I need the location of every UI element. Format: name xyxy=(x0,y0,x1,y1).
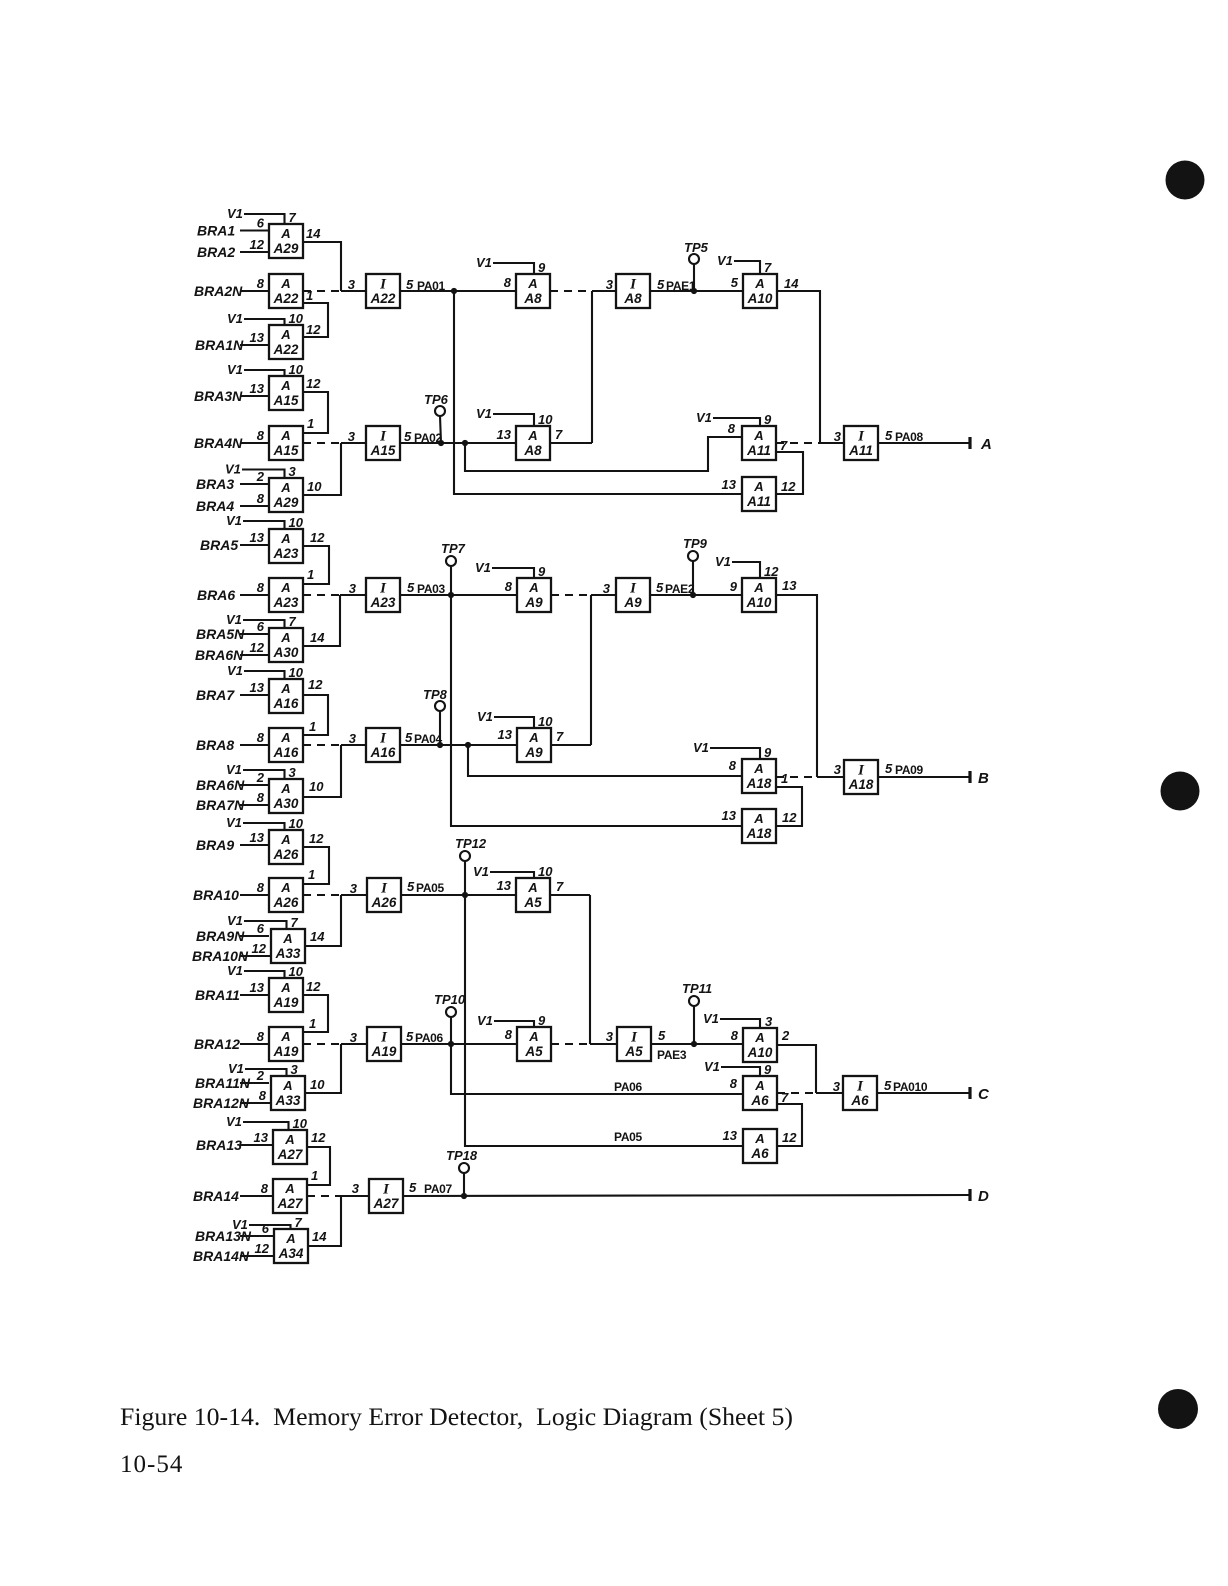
wire A22 expander pin1 xyxy=(303,288,328,337)
svg-text:A: A xyxy=(280,630,290,645)
svg-text:3: 3 xyxy=(291,1062,299,1077)
svg-text:A29: A29 xyxy=(273,495,299,510)
page number xyxy=(120,1451,183,1478)
svg-text:A30: A30 xyxy=(273,645,299,660)
test point TP5 xyxy=(684,240,709,291)
and-gate A29 (BRA3/BRA4) xyxy=(196,462,303,515)
and-gate A27 (BRA14) xyxy=(193,1179,307,1213)
and-gate A10 (pin 9) xyxy=(715,554,779,612)
and-gate A34 (BRA13N/BRA14N) xyxy=(193,1215,308,1264)
svg-text:3: 3 xyxy=(352,1181,360,1196)
svg-text:A: A xyxy=(527,276,537,291)
wire A30 pin10 to PA04 wire xyxy=(303,745,341,797)
svg-text:D: D xyxy=(978,1188,989,1205)
and-gate A18 (pin 8) xyxy=(693,740,776,793)
test point TP12 xyxy=(455,836,487,895)
and-gate A10 (pin 5) xyxy=(717,253,777,308)
svg-text:A10: A10 xyxy=(747,1045,773,1060)
svg-text:V1: V1 xyxy=(473,864,489,879)
svg-text:13: 13 xyxy=(250,330,265,345)
test point TP11 xyxy=(682,981,712,1044)
svg-text:5: 5 xyxy=(409,1180,417,1195)
svg-text:A: A xyxy=(280,880,290,895)
wire A15 pin12 to expander pin1 xyxy=(303,376,328,433)
svg-text:8: 8 xyxy=(257,580,265,595)
svg-text:7: 7 xyxy=(556,729,564,744)
and-gate A30 (BRA5N/BRA6N) xyxy=(195,612,303,663)
svg-text:V1: V1 xyxy=(226,762,242,777)
and-gate A18 (pin 13) xyxy=(722,808,776,843)
svg-text:10: 10 xyxy=(307,479,322,494)
svg-text:7: 7 xyxy=(781,1090,789,1105)
wire PA02 branch to A11 pin8 xyxy=(465,437,742,471)
svg-text:V1: V1 xyxy=(227,963,243,978)
svg-text:V1: V1 xyxy=(227,362,243,377)
wire A8 pin7 to bus xyxy=(550,427,592,443)
svg-text:A8: A8 xyxy=(523,291,542,306)
svg-text:PA06: PA06 xyxy=(415,1031,444,1045)
svg-text:2: 2 xyxy=(256,770,265,785)
svg-text:V1: V1 xyxy=(228,1061,244,1076)
svg-text:A19: A19 xyxy=(371,1044,397,1059)
svg-text:13: 13 xyxy=(250,980,265,995)
and-gate A26 (BRA9) xyxy=(196,815,304,864)
svg-text:3: 3 xyxy=(289,464,297,479)
svg-text:A16: A16 xyxy=(273,696,299,711)
svg-text:V1: V1 xyxy=(477,1013,493,1028)
svg-text:7: 7 xyxy=(291,915,299,930)
svg-text:A: A xyxy=(284,1132,294,1147)
and-gate A23 (BRA5) xyxy=(200,513,304,563)
svg-text:A11: A11 xyxy=(746,443,771,458)
svg-text:3: 3 xyxy=(834,762,842,777)
svg-text:3: 3 xyxy=(289,765,297,780)
svg-text:A: A xyxy=(980,436,992,453)
svg-text:A18: A18 xyxy=(746,826,772,841)
svg-text:A18: A18 xyxy=(746,776,772,791)
svg-text:9: 9 xyxy=(764,745,772,760)
and-gate A8 (pin 13) xyxy=(476,406,553,460)
svg-text:5: 5 xyxy=(658,1028,666,1043)
svg-text:V1: V1 xyxy=(227,913,243,928)
svg-text:1: 1 xyxy=(781,771,788,786)
svg-text:2: 2 xyxy=(781,1028,790,1043)
svg-text:V1: V1 xyxy=(717,253,733,268)
svg-text:A: A xyxy=(280,681,290,696)
test point TP7 xyxy=(441,541,466,595)
svg-text:A15: A15 xyxy=(273,393,299,408)
svg-text:3: 3 xyxy=(350,881,358,896)
wire A10 pin14 down to output wire xyxy=(777,276,820,443)
wire A5 pin7 to bus xyxy=(550,879,590,895)
svg-text:5: 5 xyxy=(405,730,413,745)
svg-text:8: 8 xyxy=(730,1076,738,1091)
and-gate A11 (pin 13) xyxy=(722,477,776,511)
svg-text:A: A xyxy=(284,1181,294,1196)
svg-text:BRA3N: BRA3N xyxy=(194,388,243,404)
dashed wire A26 out to inverter A26 xyxy=(303,881,367,896)
svg-text:12: 12 xyxy=(764,564,779,579)
and-gate A16 (BRA8) xyxy=(196,728,303,762)
svg-text:2: 2 xyxy=(256,469,265,484)
test point TP9 xyxy=(683,536,708,595)
svg-text:13: 13 xyxy=(497,427,512,442)
svg-text:8: 8 xyxy=(257,730,265,745)
svg-text:V1: V1 xyxy=(703,1011,719,1026)
svg-text:V1: V1 xyxy=(227,206,243,221)
svg-text:A29: A29 xyxy=(273,241,299,256)
svg-text:12: 12 xyxy=(311,1130,326,1145)
svg-text:BRA1N: BRA1N xyxy=(195,337,244,353)
svg-text:13: 13 xyxy=(254,1130,269,1145)
svg-text:BRA14: BRA14 xyxy=(193,1188,239,1204)
svg-text:7: 7 xyxy=(764,260,772,275)
svg-text:13: 13 xyxy=(250,381,265,396)
svg-text:12: 12 xyxy=(306,322,321,337)
svg-text:BRA7: BRA7 xyxy=(196,687,235,703)
svg-text:TP18: TP18 xyxy=(446,1148,478,1163)
svg-text:A9: A9 xyxy=(623,595,642,610)
svg-text:A: A xyxy=(280,531,290,546)
dashed wire A15 out to inverter A15 xyxy=(303,429,366,444)
svg-text:BRA9N: BRA9N xyxy=(196,928,245,944)
svg-text:12: 12 xyxy=(309,831,324,846)
and-gate A6 (pin 13) xyxy=(723,1128,777,1163)
svg-text:BRA1: BRA1 xyxy=(197,223,235,239)
svg-text:10: 10 xyxy=(310,1077,325,1092)
wire A10 pin2 down to output wire xyxy=(777,1028,816,1093)
and-gate A15 (BRA3N) xyxy=(194,362,304,410)
svg-text:7: 7 xyxy=(295,1215,303,1230)
svg-text:3: 3 xyxy=(348,277,356,292)
svg-text:3: 3 xyxy=(833,1079,841,1094)
svg-text:5: 5 xyxy=(884,1078,892,1093)
svg-text:A: A xyxy=(753,761,763,776)
svg-text:12: 12 xyxy=(252,941,267,956)
svg-text:10: 10 xyxy=(538,412,553,427)
svg-text:A: A xyxy=(280,730,290,745)
svg-text:3: 3 xyxy=(349,581,357,596)
svg-text:5: 5 xyxy=(657,277,665,292)
svg-text:A: A xyxy=(285,1231,295,1246)
inverter A27 xyxy=(369,1179,403,1213)
dashed wire A23 out to inverter A23 xyxy=(303,581,366,596)
svg-text:9: 9 xyxy=(538,564,546,579)
svg-text:A: A xyxy=(528,1029,538,1044)
svg-text:A19: A19 xyxy=(273,995,299,1010)
svg-text:A22: A22 xyxy=(273,291,299,306)
and-gate A27 (BRA13) xyxy=(196,1114,308,1164)
and-gate A9 (pin 13) xyxy=(477,709,553,762)
svg-text:A34: A34 xyxy=(278,1246,304,1261)
inverter A11 xyxy=(844,426,878,460)
svg-text:1: 1 xyxy=(311,1168,318,1183)
svg-text:A5: A5 xyxy=(524,1044,543,1059)
svg-text:A: A xyxy=(753,811,763,826)
node PA03 xyxy=(400,580,516,598)
svg-text:V1: V1 xyxy=(477,709,493,724)
and-gate A15 (BRA4N) xyxy=(194,426,303,460)
svg-text:TP7: TP7 xyxy=(441,541,466,556)
dashed wire A18 out xyxy=(776,762,844,777)
inverter A26 xyxy=(367,878,401,912)
svg-text:A: A xyxy=(280,832,290,847)
wire A27 pin12 to expander pin1 xyxy=(307,1130,330,1185)
svg-text:9: 9 xyxy=(538,260,546,275)
output wire PA09 xyxy=(878,761,969,777)
svg-text:8: 8 xyxy=(257,790,265,805)
svg-text:8: 8 xyxy=(257,276,265,291)
wire A10 pin13 down to output wire xyxy=(776,578,817,777)
svg-text:A: A xyxy=(754,1078,764,1093)
node PA05 xyxy=(401,879,516,898)
svg-text:5: 5 xyxy=(885,428,893,443)
wire A9 outputs join bus xyxy=(590,595,592,745)
svg-text:PA05: PA05 xyxy=(416,881,445,895)
svg-text:BRA6N: BRA6N xyxy=(195,647,244,663)
svg-text:TP6: TP6 xyxy=(424,392,449,407)
inverter A8 xyxy=(592,274,650,308)
svg-text:3: 3 xyxy=(765,1014,773,1029)
output wire PA010 xyxy=(877,1078,969,1094)
wire A34 pin14 to PA07 wire xyxy=(308,1196,341,1246)
svg-text:8: 8 xyxy=(728,421,736,436)
svg-text:A: A xyxy=(753,479,763,494)
svg-text:BRA7N: BRA7N xyxy=(196,797,245,813)
inverter A15 xyxy=(366,426,400,460)
svg-text:PA01: PA01 xyxy=(417,279,446,293)
output arrow C xyxy=(970,1086,990,1103)
dashed wire A16 out to inverter A16 xyxy=(303,731,366,746)
svg-text:A27: A27 xyxy=(277,1147,304,1162)
and-gate A5 (pin 13) xyxy=(473,864,553,912)
dashed wire A6 out xyxy=(777,1079,843,1094)
svg-text:1: 1 xyxy=(309,1016,316,1031)
inverter A18 xyxy=(844,760,878,794)
svg-text:10: 10 xyxy=(289,311,304,326)
svg-text:BRA13: BRA13 xyxy=(196,1137,242,1153)
svg-text:A16: A16 xyxy=(273,745,299,760)
svg-text:12: 12 xyxy=(306,376,321,391)
svg-text:3: 3 xyxy=(834,429,842,444)
figure caption xyxy=(120,1404,793,1431)
svg-text:8: 8 xyxy=(257,1029,265,1044)
svg-text:A: A xyxy=(280,480,290,495)
wire PA03 down to A18 pin13 xyxy=(451,595,742,826)
svg-text:3: 3 xyxy=(606,277,614,292)
node PAE3 xyxy=(651,1028,743,1062)
svg-text:3: 3 xyxy=(606,1029,614,1044)
svg-text:7: 7 xyxy=(556,879,564,894)
test point TP6 xyxy=(424,392,449,443)
svg-text:12: 12 xyxy=(310,530,325,545)
svg-text:A: A xyxy=(754,276,764,291)
svg-text:8: 8 xyxy=(505,579,513,594)
svg-text:10: 10 xyxy=(289,816,304,831)
svg-text:TP10: TP10 xyxy=(434,992,466,1007)
svg-text:V1: V1 xyxy=(704,1059,720,1074)
svg-text:A30: A30 xyxy=(273,796,299,811)
svg-text:TP8: TP8 xyxy=(423,687,448,702)
and-gate A9 (pin 8) xyxy=(475,560,551,612)
svg-text:A23: A23 xyxy=(273,595,299,610)
svg-text:1: 1 xyxy=(309,719,316,734)
inverter A5 xyxy=(590,1027,651,1061)
svg-text:C: C xyxy=(978,1086,990,1103)
svg-text:A16: A16 xyxy=(370,745,396,760)
svg-text:PA09: PA09 xyxy=(895,763,924,777)
node PAE1 xyxy=(650,277,744,294)
wire A6 pin7 to lower A6 pin12 xyxy=(777,1090,802,1146)
svg-text:6: 6 xyxy=(257,921,265,936)
svg-text:A23: A23 xyxy=(273,546,299,561)
svg-text:9: 9 xyxy=(538,1013,546,1028)
wire A29 pin14 to PA01 node xyxy=(303,226,341,291)
svg-text:7: 7 xyxy=(555,427,563,442)
svg-text:BRA11: BRA11 xyxy=(195,987,240,1003)
svg-text:V1: V1 xyxy=(696,410,712,425)
svg-text:V1: V1 xyxy=(475,560,491,575)
wire A18 pin7 to lower A18 pin12 xyxy=(776,771,802,826)
inverter A16 xyxy=(366,728,400,762)
svg-text:A: A xyxy=(280,781,290,796)
svg-text:A5: A5 xyxy=(523,895,542,910)
svg-text:10: 10 xyxy=(293,1116,308,1131)
svg-text:12: 12 xyxy=(250,237,265,252)
svg-text:V1: V1 xyxy=(693,740,709,755)
svg-text:A8: A8 xyxy=(523,443,542,458)
test point TP18 xyxy=(446,1148,478,1196)
svg-text:PA06: PA06 xyxy=(614,1080,643,1094)
svg-text:A: A xyxy=(280,980,290,995)
svg-text:BRA5: BRA5 xyxy=(200,537,238,553)
svg-text:5: 5 xyxy=(731,275,739,290)
svg-text:PA05: PA05 xyxy=(614,1130,643,1144)
node PA02 xyxy=(400,429,516,446)
wire PA05 down to A6 pin13 xyxy=(465,895,742,1146)
svg-text:12: 12 xyxy=(782,810,797,825)
svg-text:12: 12 xyxy=(306,979,321,994)
and-gate A19 (BRA12) xyxy=(194,1027,303,1061)
svg-text:V1: V1 xyxy=(476,255,492,270)
dashed wire A27 out to inverter A27 xyxy=(307,1181,369,1196)
svg-text:8: 8 xyxy=(731,1028,739,1043)
svg-text:BRA6: BRA6 xyxy=(197,587,235,603)
svg-text:12: 12 xyxy=(781,479,796,494)
svg-text:6: 6 xyxy=(257,619,265,634)
svg-text:A33: A33 xyxy=(275,946,301,961)
svg-text:A27: A27 xyxy=(277,1196,304,1211)
svg-text:BRA2: BRA2 xyxy=(197,244,235,260)
inverter A19 xyxy=(367,1027,401,1061)
svg-text:TP12: TP12 xyxy=(455,836,487,851)
svg-text:V1: V1 xyxy=(227,663,243,678)
svg-text:13: 13 xyxy=(723,1128,738,1143)
svg-text:V1: V1 xyxy=(226,513,242,528)
svg-text:10: 10 xyxy=(538,864,553,879)
wire PA06 down to A6 pin8 xyxy=(451,1044,742,1094)
svg-text:BRA6N: BRA6N xyxy=(196,777,245,793)
wire A9 pin7 to bus xyxy=(551,729,591,745)
svg-text:V1: V1 xyxy=(225,462,241,477)
svg-text:PAE3: PAE3 xyxy=(657,1048,687,1062)
svg-text:8: 8 xyxy=(505,1027,513,1042)
svg-text:A: A xyxy=(280,428,290,443)
svg-text:A: A xyxy=(754,1131,764,1146)
svg-text:BRA3: BRA3 xyxy=(196,476,234,492)
dashed wire A22 out to inverter A22 xyxy=(303,277,366,292)
svg-text:3: 3 xyxy=(349,731,357,746)
registration dot middle-right xyxy=(1161,772,1200,811)
svg-text:A: A xyxy=(280,1029,290,1044)
svg-text:TP11: TP11 xyxy=(682,981,712,996)
svg-text:1: 1 xyxy=(307,567,314,582)
svg-text:A26: A26 xyxy=(273,847,299,862)
registration dot bottom-right xyxy=(1158,1389,1198,1429)
svg-text:5: 5 xyxy=(407,580,415,595)
and-gate A8 (pin 8) xyxy=(476,255,550,308)
svg-text:5: 5 xyxy=(407,879,415,894)
and-gate A33 (BRA11N/BRA12N) xyxy=(193,1061,305,1111)
and-gate A26 (BRA10) xyxy=(193,878,303,912)
svg-text:8: 8 xyxy=(504,275,512,290)
svg-text:7: 7 xyxy=(289,614,297,629)
svg-text:5: 5 xyxy=(885,761,893,776)
wire A30 pin14 to PA03 wire xyxy=(303,595,340,646)
dashed wire A11 out xyxy=(776,429,844,444)
and-gate A23 (BRA6) xyxy=(197,578,303,612)
svg-text:13: 13 xyxy=(497,878,512,893)
svg-text:A33: A33 xyxy=(275,1093,301,1108)
svg-text:BRA9: BRA9 xyxy=(196,837,234,853)
svg-text:10-54: 10-54 xyxy=(120,1451,183,1478)
svg-text:A15: A15 xyxy=(273,443,299,458)
svg-text:13: 13 xyxy=(250,830,265,845)
inverter A9 xyxy=(591,578,650,612)
svg-text:A: A xyxy=(753,580,763,595)
test point TP10 xyxy=(434,992,466,1044)
svg-text:8: 8 xyxy=(261,1181,269,1196)
and-gate A19 (BRA11) xyxy=(195,963,304,1012)
svg-text:TP5: TP5 xyxy=(684,240,709,255)
svg-text:A19: A19 xyxy=(273,1044,299,1059)
svg-text:13: 13 xyxy=(250,680,265,695)
and-gate A16 (BRA7) xyxy=(196,663,304,713)
svg-text:A: A xyxy=(527,880,537,895)
svg-text:BRA5N: BRA5N xyxy=(196,626,245,642)
svg-text:V1: V1 xyxy=(226,1114,242,1129)
svg-text:10: 10 xyxy=(309,779,324,794)
svg-text:TP9: TP9 xyxy=(683,536,708,551)
svg-text:14: 14 xyxy=(784,276,799,291)
svg-text:13: 13 xyxy=(250,530,265,545)
svg-text:10: 10 xyxy=(289,964,304,979)
svg-text:A6: A6 xyxy=(850,1093,869,1108)
wire A23 pin12 to expander pin1 xyxy=(303,530,329,584)
svg-text:3: 3 xyxy=(350,1030,358,1045)
node PA04 xyxy=(400,730,518,748)
node PA01 xyxy=(400,277,516,294)
svg-text:2: 2 xyxy=(256,1068,265,1083)
svg-text:14: 14 xyxy=(310,630,325,645)
node PA06 xyxy=(401,1029,518,1047)
svg-text:13: 13 xyxy=(722,808,737,823)
svg-text:6: 6 xyxy=(257,216,265,231)
svg-text:PA08: PA08 xyxy=(895,430,924,444)
svg-text:Figure 10-14. Memory Error De: Figure 10-14. Memory Error Detector, Log… xyxy=(120,1404,793,1431)
svg-text:10: 10 xyxy=(289,515,304,530)
svg-text:9: 9 xyxy=(764,1062,772,1077)
